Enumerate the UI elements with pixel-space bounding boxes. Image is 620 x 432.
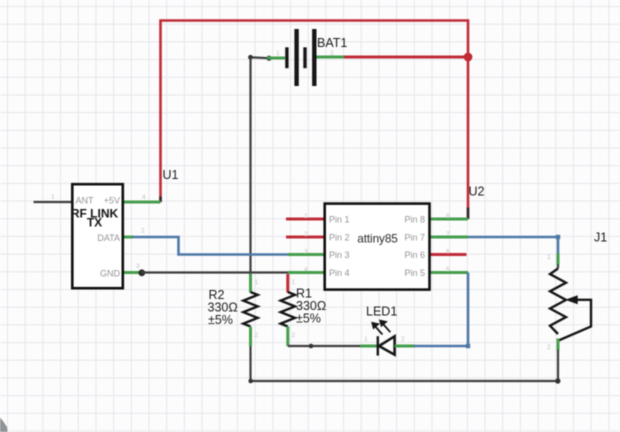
svg-text:Pin 1: Pin 1	[329, 215, 350, 225]
wire green: J1 top stub	[557, 253, 560, 265]
svg-text:TX: TX	[87, 216, 102, 230]
wire blue: LED cathode side to attiny Pin5	[414, 273, 468, 347]
svg-text:3: 3	[304, 249, 308, 256]
svg-text:1: 1	[547, 254, 551, 261]
junction dot: ground at U1 GND	[138, 269, 145, 276]
wire blue: attiny Pin7 to J1 top	[468, 237, 558, 255]
wire black: U1 ANT stub	[34, 201, 73, 203]
wire green: R1 bottom stub	[286, 327, 289, 347]
wire red: R1 top stub from pin4 row	[286, 274, 289, 293]
svg-text:GND: GND	[100, 269, 121, 279]
junction square at blue corner	[466, 344, 470, 348]
wire black: battery negative corner	[251, 56, 270, 59]
wire red: battery positive to right riser	[343, 56, 468, 59]
junction square at blue corner near J1	[556, 235, 560, 239]
wire green: R2 top stub	[249, 274, 252, 293]
wire green: battery pin1 stub	[267, 57, 285, 60]
svg-text:1: 1	[255, 279, 259, 286]
wire black: U2 riser lead foot	[467, 208, 470, 220]
LED1 emission arrow A	[372, 322, 383, 334]
LED1 cathode bar	[377, 336, 379, 355]
svg-text:U2: U2	[469, 185, 485, 199]
wire green: U1 +5V stub	[124, 201, 161, 204]
potentiometer J1 wiper wire	[559, 300, 592, 341]
svg-text:J1: J1	[594, 231, 607, 245]
wire green: battery pin2 stub	[315, 56, 344, 59]
svg-text:7: 7	[446, 231, 450, 238]
junction dot left end of rail	[248, 379, 253, 384]
svg-text:2: 2	[255, 332, 259, 339]
wire red: attiny Pin6 stub	[430, 253, 467, 256]
svg-text:attiny85: attiny85	[357, 232, 398, 246]
svg-text:2: 2	[304, 231, 308, 238]
wire green: attiny Pin4 stub	[288, 271, 325, 274]
svg-text:2: 2	[141, 228, 145, 235]
svg-text:5: 5	[446, 267, 450, 274]
IC U2 attiny85 body	[325, 204, 430, 290]
svg-text:Pin 3: Pin 3	[329, 250, 350, 260]
svg-text:4: 4	[304, 267, 308, 274]
wire black: battery negative riser down to ground row	[249, 57, 251, 272]
svg-text:2: 2	[292, 332, 296, 339]
svg-text:2: 2	[401, 336, 405, 343]
resistor R1 zigzag	[281, 292, 295, 327]
svg-text:2: 2	[330, 50, 334, 57]
wire green: U1 DATA stub	[124, 236, 134, 239]
wire red: U1 +5V riser / top rail / right riser	[161, 21, 469, 220]
svg-text:Pin 8: Pin 8	[404, 215, 425, 225]
wire green: attiny Pin3 stub	[288, 253, 325, 256]
svg-text:Pin 5: Pin 5	[404, 268, 425, 278]
svg-text:U1: U1	[163, 168, 179, 182]
svg-text:BAT1: BAT1	[317, 36, 347, 50]
svg-text:LED1: LED1	[366, 305, 397, 319]
svg-text:±5%: ±5%	[208, 313, 233, 327]
potentiometer J1 zigzag	[550, 269, 566, 335]
wire green: U1 GND stub	[124, 271, 141, 274]
svg-text:ANT: ANT	[76, 196, 95, 206]
battery BAT1 plates	[287, 29, 314, 86]
wire blue: DATA to attiny Pin3	[133, 237, 290, 255]
svg-text:3: 3	[136, 263, 140, 270]
svg-text:±5%: ±5%	[296, 312, 321, 326]
svg-text:Pin 7: Pin 7	[404, 233, 425, 243]
junction dot on R1-LED wire	[309, 344, 314, 349]
svg-text:6: 6	[446, 249, 450, 256]
stray gray mark bottom-left	[0, 418, 8, 432]
wire red: attiny Pin2 stub	[286, 236, 325, 239]
wire black: U1 riser lead foot	[159, 197, 162, 203]
svg-text:1: 1	[276, 50, 280, 57]
junction dot small on battery negative wire	[266, 56, 271, 61]
wire black: R1 bottom to LED anode	[288, 345, 361, 347]
wire green: LED left stub	[360, 345, 378, 348]
wire black: J1 bottom lead down to rail	[557, 350, 559, 381]
junction dot right end of rail	[555, 378, 560, 383]
svg-text:DATA: DATA	[97, 233, 120, 243]
svg-text:1: 1	[292, 279, 296, 286]
wire green: attiny Pin7 stub	[430, 236, 468, 239]
wire green: attiny Pin8 stub	[430, 218, 468, 221]
wire black: ground row U1 GND to R1 top	[142, 271, 288, 273]
wire green: J1 bottom stub	[557, 339, 560, 351]
wire black: bottom ground rail	[251, 346, 559, 381]
svg-text:Pin 6: Pin 6	[404, 250, 425, 260]
junction dot: battery positive / red net	[464, 53, 473, 62]
LED1 emission arrow B	[380, 320, 391, 332]
svg-text:4: 4	[142, 194, 146, 201]
svg-text:Pin 4: Pin 4	[329, 268, 350, 278]
wire green: LED right stub	[395, 345, 415, 348]
svg-text:1: 1	[304, 213, 308, 220]
svg-text:1: 1	[364, 336, 368, 343]
wire green: attiny Pin5 stub	[430, 271, 468, 274]
svg-text:2: 2	[547, 344, 551, 351]
wire black: J1 top lead	[557, 265, 559, 269]
svg-text:+5V: +5V	[104, 196, 120, 206]
wire green: R2 bottom stub	[249, 327, 252, 347]
resistor R2 zigzag	[243, 292, 257, 327]
svg-text:1: 1	[51, 194, 55, 201]
potentiometer J1 wiper arrow head	[567, 296, 578, 304]
svg-text:Pin 2: Pin 2	[329, 233, 350, 243]
IC U1 RF LINK TX body	[72, 184, 123, 288]
LED1 triangle	[379, 336, 395, 354]
wire red: attiny Pin1 stub	[286, 218, 325, 221]
junction dot small at battery negative corner	[248, 55, 253, 60]
svg-text:8: 8	[446, 213, 450, 220]
